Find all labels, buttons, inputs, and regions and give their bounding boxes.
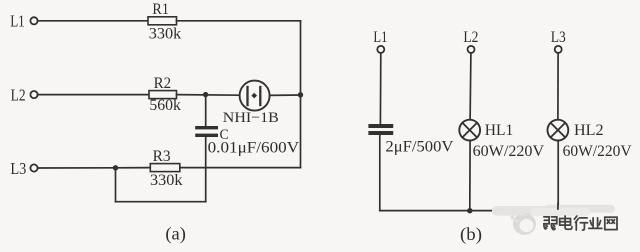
lamp HL1 circle (459, 120, 480, 141)
char 业 (589, 218, 602, 229)
wire L2 down to lamp HL1 (469, 53, 472, 120)
neon lamp electrode left (246, 87, 248, 105)
wire R3 to right rail (180, 167, 301, 169)
terminal L2 (b) (468, 46, 475, 53)
wire neon lamp to right rail (270, 94, 301, 96)
watermark text 弱电行业网 (544, 216, 617, 230)
wire L2 to R2 (38, 94, 149, 96)
lamp HL2 cross (551, 123, 566, 138)
char 网 (605, 217, 617, 229)
junction node B (L3/bypass) (113, 165, 118, 170)
terminal L3 (a) (30, 164, 37, 171)
svg-text:L2: L2 (463, 29, 478, 46)
svg-text:NHI−1B: NHI−1B (223, 110, 279, 126)
node L1 label (b) (373, 29, 387, 46)
node L2 label (b) (463, 29, 478, 46)
svg-text:HL1: HL1 (485, 122, 514, 139)
node L2 label (a) (11, 86, 26, 105)
label R3 (153, 148, 171, 165)
value 560k (R2) (149, 97, 181, 114)
value 330k (R3) (150, 172, 183, 189)
wire lamp HL2 down (tip over watermark) (557, 203, 559, 210)
neon lamp U1 circle (240, 81, 270, 111)
junction right rail / L2 (298, 92, 303, 97)
value 330k (R1) (149, 25, 182, 42)
label HL1 (485, 122, 514, 139)
wire R2 to neon lamp (177, 94, 240, 97)
svg-text:(b): (b) (460, 224, 482, 245)
junction node A (L2/C) (203, 92, 208, 97)
neon lamp electrode right (259, 87, 261, 105)
wire capacitor C2 down (379, 135, 381, 211)
capacitor C2 plate bottom (368, 131, 393, 135)
svg-text:330k: 330k (150, 172, 183, 189)
wire right rail vertical (300, 21, 302, 168)
svg-text:60W/220V: 60W/220V (563, 143, 633, 160)
svg-text:L3: L3 (551, 29, 566, 46)
wire R1 to right rail (177, 20, 301, 22)
lamp HL1 cross (462, 123, 477, 138)
value 2uF/500V (385, 139, 454, 156)
svg-text:L1: L1 (373, 29, 387, 46)
wire lamp HL2 down (557, 141, 559, 205)
label R1 (152, 1, 169, 18)
junction bottom bus / HL1 (467, 208, 472, 213)
svg-text:60W/220V: 60W/220V (473, 143, 545, 160)
svg-text:L1: L1 (10, 11, 25, 30)
caption (b) (460, 224, 482, 245)
svg-text:R1: R1 (152, 1, 169, 18)
svg-text:(a): (a) (165, 224, 186, 245)
svg-text:2μF/500V: 2μF/500V (385, 139, 454, 156)
svg-text:HL2: HL2 (574, 122, 604, 139)
wire lamp HL1 down (469, 141, 471, 211)
terminal L2 (a) (30, 91, 37, 98)
watermark smear band (492, 205, 615, 216)
wire L3 down to lamp HL2 (557, 53, 559, 120)
resistor R2 (149, 91, 177, 99)
label C (220, 127, 229, 143)
svg-text:330k: 330k (149, 25, 182, 42)
capacitor C2 plate top (368, 124, 393, 128)
value 60W/220V (HL1) (473, 143, 545, 160)
terminal L1 (a) (30, 17, 37, 24)
resistor R1 (148, 17, 177, 25)
terminal L3 (b) (555, 46, 562, 53)
node L3 label (b) (551, 29, 566, 46)
wire bottom bus (b) (380, 210, 558, 212)
svg-text:L3: L3 (10, 159, 26, 178)
svg-text:R3: R3 (153, 148, 171, 165)
wire node A down to capacitor C (205, 95, 207, 127)
char 电 (560, 216, 572, 229)
label NHI-1B (223, 110, 279, 126)
label R2 (154, 75, 172, 92)
wire bypass left vertical (115, 168, 117, 202)
char 行 (574, 216, 587, 230)
wire L1 down to capacitor (379, 53, 381, 124)
capacitor C plate top (195, 126, 218, 129)
neon lamp center dot (251, 93, 257, 99)
lamp HL2 circle (548, 120, 569, 141)
caption (a) (165, 224, 186, 245)
svg-text:560k: 560k (149, 97, 181, 114)
wire capacitor C down (205, 137, 207, 202)
wire L3 to junction (38, 167, 116, 169)
label HL2 (574, 122, 604, 139)
char 弱 (544, 217, 557, 230)
capacitor C plate bottom (195, 134, 218, 137)
svg-text:R2: R2 (154, 75, 172, 92)
value 60W/220V (HL2) (563, 143, 633, 160)
node L3 label (a) (10, 159, 26, 178)
wire bypass bottom horizontal (116, 201, 206, 203)
wire junction to R3 (116, 167, 151, 169)
resistor R3 (150, 164, 180, 172)
value 0.01uF/600V (208, 140, 300, 157)
watermark swirl logo (511, 213, 537, 235)
svg-text:0.01μF/600V: 0.01μF/600V (208, 140, 300, 157)
svg-text:L2: L2 (11, 86, 26, 105)
wire L1 to R1 (38, 20, 148, 22)
node L1 label (a) (10, 11, 25, 30)
terminal L1 (b) (377, 46, 384, 53)
